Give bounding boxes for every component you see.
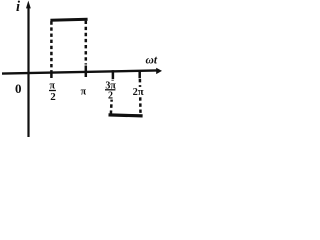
pulse bottom segment (from 3pi/2 to 2pi) (109, 115, 143, 116)
dashed riser at pi/2 (50, 21, 53, 70)
label mask 2pi (132, 87, 142, 96)
svg-text:0: 0 (15, 81, 22, 96)
y-axis arrowhead (26, 1, 31, 9)
x-axis arrowhead (156, 68, 162, 74)
pulse top segment (from pi/2 to pi) (50, 19, 87, 20)
tick label 3pi/2 (105, 80, 116, 101)
label mask pi/2 (48, 82, 58, 102)
svg-text:ωt: ωt (146, 55, 158, 67)
dashed riser at pi (85, 21, 88, 65)
label mask 3pi/2 (104, 81, 117, 100)
tick at 3pi/2 (112, 70, 115, 79)
tick at 2pi (138, 70, 141, 78)
dashed dropper at 2pi (139, 79, 142, 115)
tick label pi/2 (49, 81, 56, 103)
tick at pi (85, 66, 88, 78)
x-axis (omega-t axis) (2, 70, 158, 73)
svg-text:π: π (81, 87, 87, 98)
tick at pi/2 (50, 71, 53, 79)
dashed dropper at 3pi/2 (111, 80, 113, 114)
svg-text:2π: 2π (133, 87, 144, 98)
y-axis (current axis i) (27, 6, 29, 137)
svg-text:2: 2 (108, 91, 113, 102)
svg-text:i: i (16, 0, 20, 15)
svg-text:2: 2 (50, 91, 56, 103)
